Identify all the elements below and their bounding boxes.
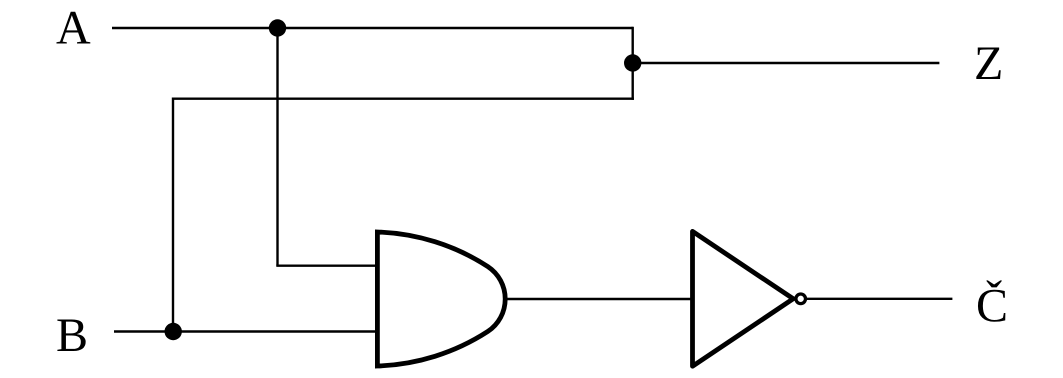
wire A-branch vertical x=277.5 (276, 27, 278, 266)
junction dot on B wire (165, 323, 182, 340)
wire A input (horizontal, y=27.7) (112, 27, 633, 29)
svg-text:Č: Č (976, 279, 1008, 333)
wire AND output y=299 (506, 298, 693, 300)
junction dot on Z drop (624, 54, 641, 71)
wire left vertical x=173 down to B (172, 98, 174, 332)
wire feedback horizontal y=98.5 (173, 97, 634, 99)
AND gate (377, 232, 505, 366)
junction dot on A wire (269, 19, 286, 36)
inverter triangle (693, 231, 794, 366)
wire B input (horizontal, y=331.5) (114, 330, 378, 332)
wire vertical drop x=632.4 from A wire to feedback (632, 27, 634, 100)
svg-text:Z: Z (974, 37, 1003, 90)
svg-text:B: B (56, 309, 88, 362)
inverter bubble (796, 294, 806, 304)
wire C-bar output y=298.8 (807, 298, 953, 300)
svg-text:A: A (56, 2, 91, 55)
wire A-branch horizontal into AND top input y=265.7 (276, 265, 378, 267)
wire Z output y=62.8 (633, 62, 940, 64)
